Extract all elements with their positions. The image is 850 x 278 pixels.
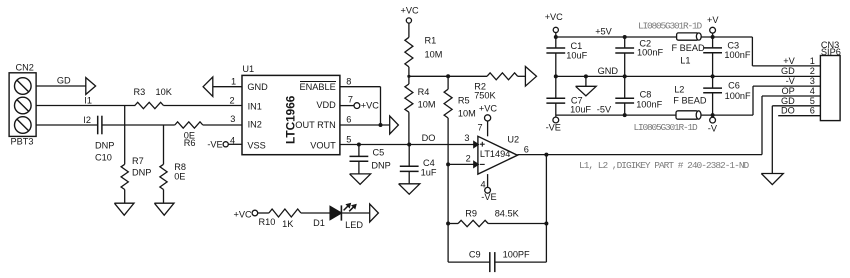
wire mid rail [409,75,487,77]
wire +V down to CN3 pin1 [752,37,820,66]
net arrow OUT RTN [390,116,399,134]
svg-text:U1: U1 [242,64,254,74]
capacitor C5 DNP [350,145,391,174]
ferrite bead L2 [673,84,707,119]
svg-text:R8: R8 [174,162,186,172]
svg-text:+VC: +VC [234,209,252,219]
node GND symbol tap [584,74,588,78]
net arrow R2 out [525,67,536,87]
svg-text:100nF: 100nF [636,99,662,109]
svg-text:10M: 10M [458,109,476,119]
svg-text:VSS: VSS [247,141,265,151]
capacitor C10 (DNP) [95,116,114,163]
svg-text:R3: R3 [134,87,146,97]
svg-text:C10: C10 [95,152,112,162]
node GND C2/C8 [623,74,627,78]
svg-text:GND: GND [598,66,619,76]
node R1/R4 junction [407,75,410,78]
svg-text:C5: C5 [373,148,385,158]
svg-text:C9: C9 [469,249,481,259]
svg-text:100nF: 100nF [724,50,750,60]
svg-text:-5V: -5V [597,105,612,115]
capacitor C3 100nF [703,37,751,76]
svg-text:7: 7 [348,95,353,105]
svg-text:1K: 1K [282,219,294,229]
svg-text:GD: GD [57,76,71,86]
svg-text:-V: -V [708,124,718,134]
svg-text:LTC1966: LTC1966 [284,95,298,144]
terminal -VE at U1 pin4 [207,135,235,149]
node R5 junction [446,74,450,78]
wire U2 pin4 [480,174,487,189]
terminal +VC above R1 [401,6,419,23]
terminal -VE power [546,115,561,132]
svg-text:3: 3 [230,114,235,124]
svg-text:R1: R1 [425,35,437,45]
op-amp U2 LT1494 [474,134,519,174]
label DO pin6 [781,106,815,116]
svg-text:+V: +V [707,15,719,25]
svg-text:-VE: -VE [546,122,561,132]
svg-text:LED: LED [345,220,363,230]
svg-text:6: 6 [346,115,351,125]
wire U1 pin8 down to pin6 node [380,87,382,125]
capacitor C2 100nF [615,37,663,76]
svg-text:DNP: DNP [95,140,114,150]
wire R7 top [124,106,126,165]
node C8 bottom [623,113,627,117]
wire U2 pin2 input [448,153,474,164]
wire C9 right lead [495,261,547,263]
net arrow LED out [370,204,379,222]
wire GD pin5 to ground [772,106,820,174]
LED D1 [313,203,363,230]
wire +VC stub [555,33,557,37]
svg-text:10M: 10M [425,49,443,59]
svg-text:C1: C1 [571,41,583,51]
resistor R6 0E [175,122,203,148]
svg-text:-V: -V [786,76,796,86]
svg-text:2: 2 [230,95,235,105]
label -V pin3 [786,76,815,86]
wire +VC to R10 [258,212,269,214]
svg-text:+VC: +VC [361,100,379,110]
wire R9 right lead [488,223,546,225]
connector CN3 SIP6 [820,40,840,121]
svg-text:1: 1 [231,76,236,86]
svg-text:R9: R9 [465,208,477,218]
svg-text:GD: GD [781,96,795,106]
svg-text:100nF: 100nF [637,48,663,58]
wire GND rail [556,75,821,77]
wire R7 bottom [124,190,126,204]
ferrite bead L1 [672,33,706,66]
svg-text:+VC: +VC [545,12,563,22]
svg-text:SIP6: SIP6 [821,47,841,57]
svg-text:10uF: 10uF [570,105,591,115]
terminal -V [708,115,718,133]
wire +5V rail [556,36,753,38]
svg-text:10K: 10K [156,87,173,97]
svg-text:+5V: +5V [595,27,612,37]
node U2 output junction [544,153,548,157]
svg-text:3: 3 [810,76,815,86]
svg-text:-VE: -VE [207,139,222,149]
wire C9 left lead [448,261,490,263]
svg-text:OUT RTN: OUT RTN [295,120,336,130]
node pin6/pin8 junction [379,123,383,127]
svg-text:+V: +V [783,56,795,66]
svg-text:1: 1 [810,56,815,66]
ground R7 [114,203,134,215]
svg-text:2: 2 [466,153,471,163]
wire feedback right [545,155,547,263]
wire U1 pin1 [213,76,242,86]
wire U1 pin5 / node DO [340,135,474,145]
wire DO stub [778,115,820,117]
svg-text:-VE: -VE [481,192,496,202]
svg-text:5: 5 [810,96,815,106]
terminal -VE at U2 pin4 [481,187,496,202]
net arrow into U1 pin1 [203,77,213,96]
IC U1 LTC1966 body [242,64,340,155]
resistor R4 10M [405,76,436,112]
svg-text:F BEAD: F BEAD [672,43,706,53]
svg-text:IN2: IN2 [248,119,262,129]
node C2 top [623,35,627,39]
label OP pin4 [782,86,815,96]
capacitor C4 1uF [400,145,437,184]
node GND C3/C6 [711,74,715,78]
svg-text:R6: R6 [184,138,196,148]
resistor R8 0E [160,162,186,190]
svg-text:LT1494: LT1494 [480,149,510,159]
pin number 3 [230,114,235,124]
capacitor C1 10uF [546,37,587,76]
wire R8 top [163,125,165,164]
svg-text:3: 3 [464,133,469,143]
svg-text:L1, L2 ,DIGIKEY PART # 240-238: L1, L2 ,DIGIKEY PART # 240-2382-1-ND [579,160,750,171]
svg-text:I1: I1 [84,96,92,106]
svg-text:5: 5 [346,135,351,145]
label GD pin5 [781,96,815,106]
svg-text:GND: GND [247,82,268,92]
label I2 [83,115,91,125]
label -5V [597,105,612,115]
wire R9 left lead [448,223,458,225]
resistor R2 750K [474,73,518,101]
svg-text:10uF: 10uF [566,51,587,61]
wire U1 pin8 [340,76,381,86]
svg-text:LI0805G301R-1D: LI0805G301R-1D [638,20,703,31]
node R9 left junction [446,222,450,226]
wire R1 bottom [408,67,410,76]
resistor R3 10K [134,87,173,109]
svg-text:6: 6 [524,144,529,154]
node C5 tap [357,143,361,147]
svg-text:+VC: +VC [479,104,497,114]
node C6 bottom [711,113,715,117]
svg-text:C8: C8 [640,89,652,99]
svg-text:R4: R4 [418,87,430,97]
node C1 top [554,35,558,39]
svg-text:1uF: 1uF [421,167,437,177]
ground C5 [350,174,371,184]
pin 3 number [464,133,469,143]
svg-text:100nF: 100nF [725,91,751,101]
wire I1 [36,105,135,107]
wire R10 to D1 [301,212,330,214]
svg-text:100PF: 100PF [503,249,530,259]
svg-text:R5: R5 [458,95,470,105]
label DO [422,133,436,143]
wire D1 to arrow [341,212,369,214]
svg-text:D1: D1 [313,218,325,228]
wire R4 to DO [408,112,410,144]
svg-text:LI0805G301R-1D: LI0805G301R-1D [634,122,699,133]
svg-text:I2: I2 [83,115,91,125]
capacitor C7 10uF [546,76,591,115]
wire R5 to U2 pin2 [447,118,449,164]
svg-text:CN2: CN2 [16,63,34,73]
svg-text:DO: DO [781,106,795,116]
net arrow GD [86,78,96,95]
resistor R7 DNP [121,156,151,190]
ground R8 [154,203,174,215]
svg-text:84.5K: 84.5K [495,208,520,218]
wire GD [36,85,86,87]
svg-text:R7: R7 [132,156,144,166]
wire U1 pin4 [228,143,242,145]
svg-text:8: 8 [346,76,351,86]
terminal +VC at U2 pin7 [479,104,497,121]
label L1 part number [638,20,703,31]
wire R6 to U1 pin3 [203,124,242,126]
svg-text:IN1: IN1 [248,102,262,112]
svg-text:7: 7 [477,123,482,133]
wire OP net vertical [762,96,820,155]
svg-text:F BEAD: F BEAD [673,96,707,106]
resistor R1 10M [405,35,442,67]
node R9 right junction [544,222,548,226]
svg-text:L2: L2 [674,84,684,94]
resistor R10 1K [259,209,301,229]
svg-text:DNP: DNP [132,168,151,178]
node GND C1/C7 [554,74,558,78]
svg-text:4: 4 [480,179,485,189]
wire +VC to R1 [408,23,410,37]
wire U2 pin7 [477,121,487,136]
node C3 top [711,35,715,39]
svg-text:0E: 0E [174,172,185,182]
terminal +VC power [545,12,563,32]
terminal +VC at U1 pin7 [354,100,379,110]
svg-text:6: 6 [810,106,815,116]
wire U1 pin6 [340,115,390,126]
wire -5V rail [556,114,753,116]
wire feedback left [447,164,449,262]
svg-text:PBT3: PBT3 [11,137,34,147]
capacitor C9 100PF [469,249,530,272]
wire U1 pin7 [340,95,354,106]
label +5V [595,27,612,37]
note DIGIKEY [579,160,750,171]
resistor R9 84.5K [458,208,519,226]
svg-text:GD: GD [781,66,795,76]
capacitor C8 100nF [615,76,662,115]
capacitor C6 100nF [703,76,751,115]
svg-text:DO: DO [422,133,436,143]
svg-text:4: 4 [810,86,815,96]
svg-text:C6: C6 [728,80,740,90]
svg-text:750K: 750K [474,91,496,101]
svg-text:DNP: DNP [371,160,390,170]
wire R2 to arrow [518,75,526,77]
svg-text:+VC: +VC [401,6,419,16]
connector CN2 (PBT3) [9,63,36,147]
ground GND rail [576,76,597,96]
svg-text:VOUT: VOUT [310,141,336,151]
ground CN3 GD [761,174,783,185]
label +V pin1 [783,56,815,66]
terminal +V [707,15,719,37]
svg-text:OP: OP [782,86,795,96]
wire R3 to U1 pin2 [164,105,243,107]
label I1 [84,96,92,106]
ground C4 [399,184,420,194]
label L2 part number [634,122,699,133]
terminal +VC at R10 [234,209,258,219]
wire -V up to CN3 pin3 [753,86,820,115]
svg-text:R10: R10 [259,217,276,227]
wire I2 [36,124,98,126]
node R4/C4/DO junction [407,143,411,147]
wire R8 bottom [163,190,165,204]
label GD pin2 [781,66,815,76]
svg-text:U2: U2 [507,134,519,144]
svg-text:C3: C3 [727,41,739,51]
label GND [598,66,619,76]
pin number 2 [230,95,235,105]
node U2 pin2 junction [446,162,450,166]
svg-text:10M: 10M [418,100,436,110]
svg-text:ENABLE: ENABLE [300,82,336,92]
wire I2 to R6 [102,124,175,126]
svg-text:VDD: VDD [316,100,336,110]
label GD [57,76,71,86]
resistor R5 10M [444,76,476,118]
svg-text:2: 2 [810,66,815,76]
svg-text:L1: L1 [680,56,690,66]
wire U2 output / OP net [517,144,762,154]
